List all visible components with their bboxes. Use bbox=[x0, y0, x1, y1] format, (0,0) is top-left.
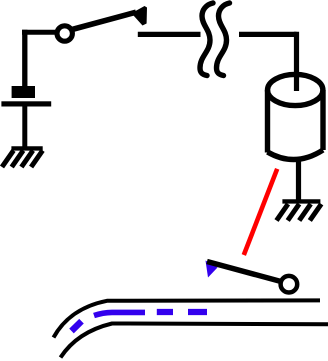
solenoid cylinder bbox=[268, 74, 324, 159]
line break squiggle bbox=[200, 3, 230, 76]
lane marking dash 1 (blue) bbox=[72, 321, 82, 331]
lane marking dash 4 (blue) bbox=[188, 309, 207, 315]
wire bbox=[296, 158, 301, 201]
switch fixed contact bbox=[138, 32, 201, 37]
wire bbox=[294, 32, 299, 91]
contact plate bbox=[1, 101, 51, 106]
mechanical link (red) bbox=[244, 169, 277, 255]
lower switch arm bbox=[207, 262, 281, 282]
wire bbox=[22, 30, 56, 35]
ground bbox=[2, 148, 43, 167]
wire bbox=[22, 30, 27, 87]
lane marking dash 2 (blue) bbox=[94, 312, 145, 315]
ground bbox=[277, 201, 322, 220]
wire bbox=[239, 32, 297, 37]
wire bbox=[22, 106, 27, 147]
switch S1 pivot bbox=[57, 26, 72, 41]
road lower edge bbox=[61, 324, 328, 358]
lane marking dash 3 (blue) bbox=[157, 309, 173, 315]
lower switch contact insulator (blue wedge) bbox=[206, 261, 218, 278]
switch S1 lever arm bbox=[72, 12, 136, 29]
switch S1 arrowhead bbox=[131, 6, 147, 26]
road upper edge bbox=[54, 300, 321, 337]
lower switch pivot bbox=[281, 276, 298, 293]
contact block bbox=[12, 86, 35, 98]
